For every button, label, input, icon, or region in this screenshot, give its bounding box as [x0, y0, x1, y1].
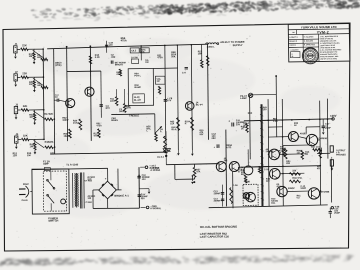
svg-text:D1-9 A: D1-9 A [157, 156, 164, 159]
svg-text:LAST CAPACITOR C20: LAST CAPACITOR C20 [200, 234, 230, 238]
svg-text:SPECIFIED 1/2 W 10%: SPECIFIED 1/2 W 10% [320, 40, 337, 42]
svg-text:62K: 62K [38, 85, 43, 87]
svg-text:22K: 22K [49, 113, 54, 116]
svg-text:LICENSED: LICENSED [291, 50, 300, 52]
svg-text:SUPPLY: SUPPLY [233, 43, 243, 47]
svg-text:22K: 22K [49, 141, 54, 144]
svg-text:500P: 500P [119, 111, 125, 113]
svg-text:2.1K: 2.1K [95, 56, 100, 59]
svg-text:475A: 475A [93, 134, 99, 137]
svg-text:25V: 25V [212, 137, 217, 140]
svg-text:C11: C11 [50, 152, 55, 155]
svg-text:1.2K: 1.2K [273, 120, 278, 123]
svg-text:87V: 87V [106, 107, 111, 110]
svg-text:PLUG: PLUG [22, 200, 28, 202]
svg-text:47K: 47K [116, 73, 120, 76]
svg-text:YORKVILLE SOUND LTD: YORKVILLE SOUND LTD [301, 25, 337, 30]
svg-text:1K: 1K [294, 125, 297, 127]
svg-text:+T RED: +T RED [85, 202, 93, 204]
svg-text:BASS: BASS [111, 119, 118, 122]
svg-text:DC-CAL BOTTOM SPACING: DC-CAL BOTTOM SPACING [200, 225, 238, 229]
svg-text:62K: 62K [37, 57, 42, 59]
svg-text:YVM-2: YVM-2 [317, 30, 329, 34]
svg-text:1M: 1M [29, 116, 32, 119]
svg-text:2N5496: 2N5496 [266, 150, 274, 153]
svg-text:T1 A-1240: T1 A-1240 [66, 162, 79, 166]
svg-text:A 300MA: A 300MA [149, 167, 159, 170]
svg-text:1K: 1K [241, 128, 244, 130]
svg-text:STD985: STD985 [321, 191, 330, 194]
svg-text:1M: 1M [29, 55, 32, 58]
svg-text:250MF: 250MF [214, 193, 222, 195]
svg-text:BAMF: BAMF [135, 86, 142, 89]
svg-text:R30: R30 [248, 112, 253, 115]
svg-text:R33 47Ω: R33 47Ω [292, 177, 301, 180]
svg-text:40632: 40632 [288, 187, 295, 190]
svg-text:.022: .022 [111, 57, 116, 59]
svg-text:4.7Ω: 4.7Ω [226, 146, 231, 149]
svg-text:BC-04: BC-04 [196, 103, 204, 106]
svg-text:C4.3: C4.3 [131, 49, 137, 52]
svg-text:162W: 162W [62, 120, 69, 122]
svg-text:POT L: POT L [134, 75, 141, 77]
svg-text:475A: 475A [121, 38, 127, 42]
svg-text:100K: 100K [110, 101, 116, 103]
svg-text:SL4Q: SL4Q [134, 96, 140, 99]
svg-text:1M: 1M [29, 83, 32, 86]
svg-text:40V: 40V [142, 178, 147, 181]
svg-text:25V: 25V [236, 123, 241, 126]
svg-text:12R: 12R [13, 154, 18, 157]
svg-text:10Ω: 10Ω [87, 179, 91, 181]
svg-text:BRIGHT: BRIGHT [115, 64, 124, 66]
svg-text:115V: 115V [23, 182, 29, 186]
svg-text:1M: 1M [156, 81, 159, 83]
svg-text:87V: 87V [167, 99, 172, 102]
svg-text:50K: 50K [171, 55, 176, 58]
svg-text:50V: 50V [199, 134, 203, 136]
svg-text:BRIDGE A-1: BRIDGE A-1 [114, 194, 129, 197]
svg-text:LAMP: LAMP [240, 97, 247, 100]
svg-text:475A: 475A [157, 56, 163, 59]
svg-text:40V: 40V [141, 197, 146, 200]
svg-text:DC WITH RESPECT TO: DC WITH RESPECT TO [320, 52, 338, 54]
svg-text:22K: 22K [22, 71, 27, 75]
svg-text:(20K): (20K) [55, 64, 61, 67]
svg-text:+40V: +40V [330, 114, 337, 118]
svg-text:AMP: AMP [43, 162, 49, 166]
svg-text:C-16: C-16 [232, 184, 238, 187]
svg-text:47A: 47A [196, 170, 201, 173]
svg-text:250MF: 250MF [214, 200, 222, 202]
svg-text:22K: 22K [23, 104, 28, 108]
svg-text:22K: 22K [22, 43, 27, 47]
svg-text:25MF: 25MF [325, 128, 331, 130]
svg-text:C-18: C-18 [264, 169, 270, 171]
svg-text:5%: 5% [141, 52, 144, 54]
svg-text:A SIGNAL: A SIGNAL [150, 207, 162, 210]
svg-text:SWITCH: SWITCH [48, 218, 58, 222]
svg-text:475A: 475A [96, 124, 102, 127]
svg-text:PHONES: PHONES [336, 154, 346, 156]
svg-text:+: + [105, 177, 107, 181]
svg-text:DESIGN D: DESIGN D [289, 41, 298, 43]
svg-text:162A: 162A [63, 135, 69, 138]
svg-text:BL-GR: BL-GR [134, 100, 141, 102]
svg-text:4Ω: 4Ω [317, 167, 320, 170]
svg-text:CHKD M: CHKD M [289, 45, 296, 47]
svg-text:15A: 15A [170, 122, 175, 125]
svg-text:25MF: 25MF [334, 213, 340, 215]
svg-text:10.5A: 10.5A [73, 122, 80, 125]
svg-text:R37 47A: R37 47A [311, 146, 320, 149]
svg-text:BL4L: BL4L [171, 128, 177, 131]
svg-text:22K: 22K [23, 133, 28, 137]
svg-text:1M: 1M [30, 145, 33, 148]
svg-text:50MF: 50MF [301, 188, 307, 190]
